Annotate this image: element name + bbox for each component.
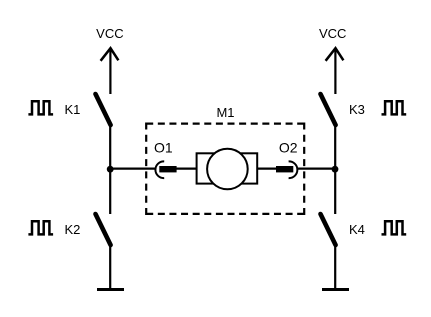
svg-text:K2: K2 (65, 222, 81, 237)
switch K1 (96, 94, 111, 125)
svg-text:K1: K1 (65, 102, 81, 117)
svg-text:VCC: VCC (96, 26, 123, 41)
svg-text:O1: O1 (154, 139, 173, 155)
node B junction dot (332, 166, 339, 173)
svg-text:O2: O2 (279, 139, 298, 155)
switch K2 (96, 214, 111, 245)
pulse waveform icon for K1 (28, 101, 53, 114)
wire K4 to ground right (334, 244, 336, 289)
switch K4 (321, 214, 336, 245)
pulse waveform icon for K4 (382, 221, 407, 234)
wire K3 to node B (334, 124, 336, 169)
wire node A to K2 (109, 169, 111, 214)
svg-text:VCC: VCC (319, 26, 346, 41)
terminal O2 socket arc (289, 161, 298, 178)
power symbol VCC left arrow (101, 48, 119, 94)
terminal O2 pin bar (276, 166, 293, 172)
power symbol VCC right arrow (326, 48, 344, 94)
terminal O1 socket arc (155, 161, 164, 178)
wire node A to terminal O1 (110, 168, 155, 170)
wire K2 to ground left (109, 244, 111, 289)
wire motor to O2 (257, 168, 277, 170)
svg-text:K4: K4 (349, 222, 365, 237)
wire node B to K4 (334, 169, 336, 214)
motor M1 body rect (197, 153, 258, 183)
switch K3 (321, 94, 336, 125)
pulse waveform icon for K2 (28, 221, 53, 234)
motor M1 rotor circle (207, 149, 248, 190)
svg-text:K3: K3 (349, 102, 365, 117)
terminal O1 pin bar (159, 166, 176, 172)
pulse waveform icon for K3 (382, 101, 407, 114)
wire O2 to node B (297, 168, 335, 170)
node A junction dot (107, 166, 114, 173)
ground left (97, 288, 124, 291)
ground right (322, 288, 349, 291)
svg-text:M1: M1 (216, 105, 234, 120)
module M1 dashed enclosure (146, 123, 304, 216)
wire O1 to motor (176, 168, 197, 170)
wire K1 to node A (109, 124, 111, 169)
